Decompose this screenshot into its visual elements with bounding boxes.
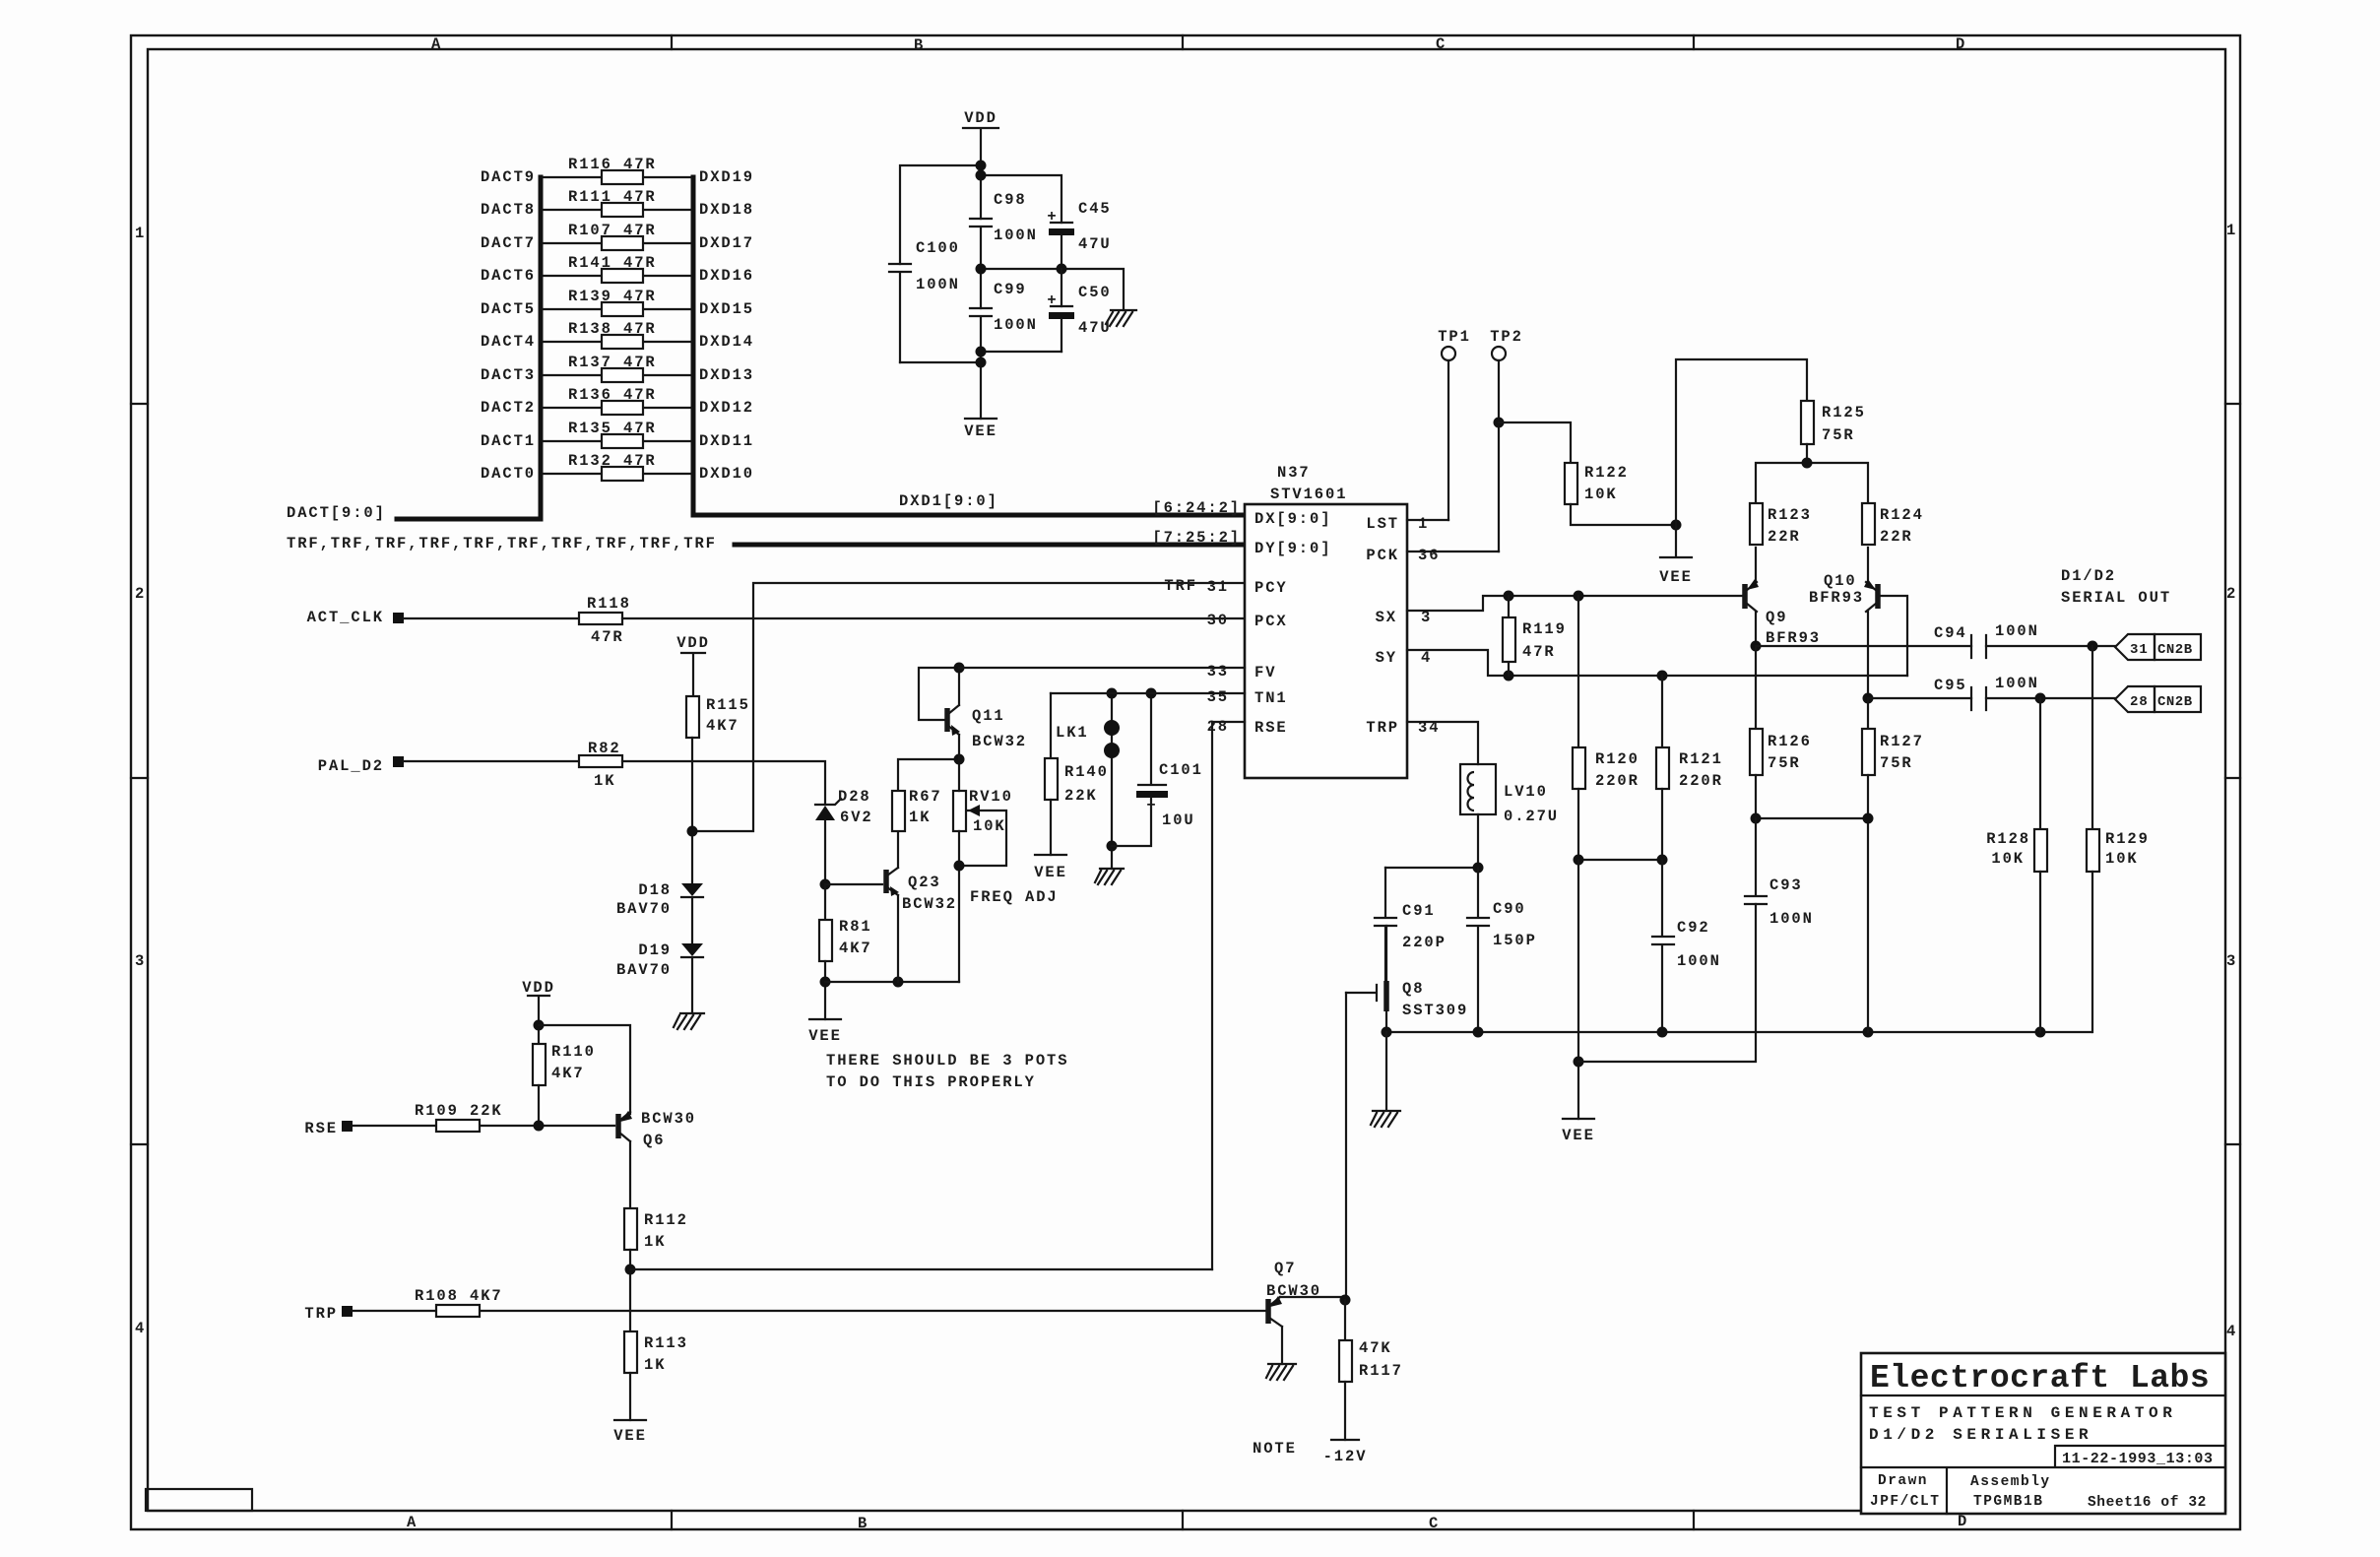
- power VEE (R113): [613, 1420, 647, 1445]
- zone label C bottom: [1429, 1515, 1440, 1532]
- svg-text:47U: 47U: [1078, 235, 1112, 253]
- svg-text:150P: 150P: [1493, 932, 1537, 949]
- resistor R112 1K: [624, 1208, 688, 1331]
- svg-text:DACT2: DACT2: [481, 399, 536, 417]
- svg-text:Q6: Q6: [643, 1132, 665, 1149]
- svg-text:RSE: RSE: [304, 1120, 338, 1137]
- zone label B top: [914, 36, 925, 54]
- capacitor C101 10U (polarised): [1112, 688, 1203, 847]
- svg-text:+: +: [1047, 208, 1058, 226]
- svg-text:R132 47R: R132 47R: [568, 452, 657, 470]
- pin 3 label: [1421, 609, 1432, 626]
- capacitor C100 100N: [889, 239, 960, 362]
- svg-text:BCW32: BCW32: [902, 895, 957, 913]
- svg-text:R118: R118: [587, 595, 631, 613]
- svg-text:1K: 1K: [594, 772, 615, 790]
- svg-text:R109 22K: R109 22K: [415, 1102, 503, 1120]
- wire Q8 gate drop: [1345, 993, 1347, 1298]
- resistor R141 47R (DACT6 to DXD16): [543, 254, 691, 283]
- wire TN1 pin 35: [1051, 692, 1245, 694]
- svg-text:Q9: Q9: [1766, 609, 1787, 626]
- svg-text:100N: 100N: [1995, 622, 2039, 640]
- label NOTE: [1253, 1440, 1297, 1458]
- wire ACT_CLK to R118: [404, 617, 579, 619]
- svg-text:D1/D2: D1/D2: [2061, 567, 2116, 585]
- svg-text:NOTE: NOTE: [1253, 1440, 1297, 1458]
- svg-text:6V2: 6V2: [840, 809, 873, 826]
- wire C93 bottom to VEE rail: [1578, 904, 1756, 1062]
- row label 2 right: [2226, 585, 2237, 603]
- svg-text:C98: C98: [994, 191, 1027, 209]
- wire RSE pin 28: [1212, 722, 1245, 1269]
- svg-text:Q8: Q8: [1402, 980, 1424, 998]
- svg-text:DXD13: DXD13: [699, 366, 754, 384]
- power VEE (cap bank): [964, 419, 997, 440]
- svg-text:DXD12: DXD12: [699, 399, 754, 417]
- wire C91/C90 top rail: [1385, 863, 1484, 874]
- svg-text:BCW30: BCW30: [641, 1110, 696, 1128]
- svg-text:TN1: TN1: [1254, 689, 1288, 707]
- ladder left bus (DACT side): [539, 177, 544, 519]
- svg-text:4: 4: [2226, 1323, 2237, 1340]
- svg-text:R126: R126: [1768, 733, 1812, 750]
- inductor LV10 0.27U: [1460, 764, 1559, 868]
- svg-text:R124: R124: [1880, 506, 1924, 524]
- node Q11 emitter junction: [954, 754, 965, 765]
- resistor R137 47R (DACT3 to DXD13): [543, 354, 691, 382]
- svg-text:DACT3: DACT3: [481, 366, 536, 384]
- resistor R135 47R (DACT1 to DXD11): [543, 420, 691, 448]
- resistor R117 47K: [1339, 1300, 1403, 1440]
- power VEE (R140): [1034, 855, 1067, 881]
- svg-text:R128: R128: [1986, 830, 2030, 848]
- row label 2 left: [135, 585, 146, 603]
- svg-text:R108 4K7: R108 4K7: [415, 1287, 503, 1305]
- transistor Q8 SST309 (FET): [1346, 926, 1468, 1032]
- svg-text:PCX: PCX: [1254, 613, 1288, 630]
- pin 1 label: [1418, 515, 1429, 533]
- svg-text:STV1601: STV1601: [1270, 486, 1347, 503]
- node VDD junction dots: [976, 161, 987, 181]
- wire D28 to Q23 base and R81: [820, 879, 883, 921]
- svg-text:35: 35: [1207, 688, 1229, 706]
- ground (Q7 emitter): [1266, 1364, 1296, 1380]
- svg-text:47U: 47U: [1078, 319, 1112, 337]
- svg-text:BFR93: BFR93: [1809, 589, 1864, 607]
- power VEE (R120 rail): [1562, 1119, 1595, 1144]
- wire R120/R121 bottom rail: [1574, 855, 1668, 866]
- svg-text:Q7: Q7: [1274, 1260, 1296, 1277]
- capacitor C98 100N: [970, 191, 1038, 308]
- wire VDD node to caps: [900, 165, 1061, 264]
- svg-text:Drawn: Drawn: [1878, 1473, 1928, 1489]
- svg-text:Sheet16 of 32: Sheet16 of 32: [2088, 1495, 2207, 1511]
- row label 4 left: [135, 1320, 146, 1337]
- wire PCK pin 36 to TP2: [1407, 551, 1499, 552]
- svg-text:DXD10: DXD10: [699, 465, 754, 483]
- transistor Q11 BCW32: [919, 668, 1027, 759]
- svg-text:DY[9:0]: DY[9:0]: [1254, 540, 1331, 557]
- resistor R125 75R: [1801, 401, 1866, 444]
- svg-text:+: +: [1047, 292, 1058, 309]
- node Q7 collector junction: [1340, 1295, 1351, 1306]
- node DACT4: [481, 333, 536, 351]
- svg-text:R120: R120: [1595, 750, 1640, 768]
- label FREQ ADJ: [970, 888, 1059, 906]
- svg-text:R141 47R: R141 47R: [568, 254, 657, 272]
- svg-text:10K: 10K: [1991, 850, 2025, 868]
- svg-text:4: 4: [135, 1320, 146, 1337]
- svg-text:VDD: VDD: [522, 979, 555, 997]
- svg-text:R116 47R: R116 47R: [568, 156, 657, 173]
- wire caps bottom rail: [900, 347, 1061, 420]
- row label 3 left: [135, 952, 146, 970]
- svg-text:LK1: LK1: [1056, 724, 1089, 742]
- svg-text:FV: FV: [1254, 664, 1276, 681]
- svg-text:C: C: [1429, 1515, 1440, 1532]
- node DXD11: [699, 432, 754, 450]
- svg-text:28: 28: [2130, 694, 2149, 710]
- wire TRF bus to DY: [735, 543, 1245, 548]
- wire R81 to bottom rail: [820, 961, 831, 1019]
- svg-text:DACT0: DACT0: [481, 465, 536, 483]
- svg-text:Assembly: Assembly: [1970, 1474, 2051, 1490]
- svg-text:-12V: -12V: [1323, 1448, 1368, 1465]
- resistor R122 10K: [1565, 463, 1629, 504]
- svg-text:R136 47R: R136 47R: [568, 386, 657, 404]
- wire emitter rail Q23/RV10: [825, 977, 959, 988]
- ground (below LK1): [1095, 869, 1124, 884]
- svg-text:DXD14: DXD14: [699, 333, 754, 351]
- svg-text:R115: R115: [706, 696, 750, 714]
- zone label C top: [1436, 35, 1447, 53]
- resistor R108 4K7: [415, 1287, 503, 1317]
- resistor R123 22R: [1750, 503, 1812, 546]
- power VEE (R122): [1659, 525, 1693, 586]
- note text pots: [826, 1052, 1068, 1091]
- row label 1 left: [135, 225, 146, 242]
- node DACT[9:0] bus label: [287, 504, 386, 522]
- svg-text:BCW30: BCW30: [1266, 1282, 1321, 1300]
- node mid rail: [976, 264, 1125, 311]
- svg-text:R135 47R: R135 47R: [568, 420, 657, 437]
- wire RSE to Q6 base: [353, 1121, 614, 1132]
- resistor R128 10K: [1986, 698, 2047, 1032]
- resistor R110 4K7: [533, 1043, 596, 1126]
- node FV junction dot: [954, 663, 965, 674]
- svg-text:DXD15: DXD15: [699, 300, 754, 318]
- capacitor C95 100N: [1934, 675, 2039, 710]
- wire TP2 branch to R122: [1499, 422, 1571, 463]
- capacitor C50 47U (polarised): [1047, 269, 1111, 352]
- node DXD10: [699, 465, 754, 483]
- svg-text:JPF/CLT: JPF/CLT: [1870, 1494, 1940, 1510]
- svg-text:DACT6: DACT6: [481, 267, 536, 285]
- row label 3 right: [2226, 952, 2237, 970]
- svg-text:10K: 10K: [973, 817, 1006, 835]
- svg-text:R112: R112: [644, 1211, 688, 1229]
- resistor R107 47R (DACT7 to DXD17): [543, 222, 691, 250]
- svg-text:D: D: [1956, 35, 1966, 53]
- svg-text:47K: 47K: [1359, 1339, 1392, 1357]
- svg-text:R107 47R: R107 47R: [568, 222, 657, 239]
- node DACT9: [481, 168, 536, 186]
- pin 35 label: [1207, 688, 1229, 706]
- svg-text:1K: 1K: [644, 1233, 666, 1251]
- svg-text:DXD1[9:0]: DXD1[9:0]: [899, 492, 998, 510]
- svg-text:[6:24:2]: [6:24:2]: [1152, 499, 1241, 517]
- capacitor C45 47U (polarised): [1047, 200, 1111, 269]
- ground (cap bank): [1106, 310, 1136, 326]
- svg-text:VDD: VDD: [964, 109, 997, 127]
- wire C95 coupling: [1868, 693, 2115, 704]
- node DXD16: [699, 267, 754, 285]
- svg-text:Electrocraft Labs: Electrocraft Labs: [1870, 1360, 2210, 1396]
- node TRP input: [304, 1305, 353, 1323]
- svg-text:75R: 75R: [1768, 754, 1801, 772]
- svg-text:D28: D28: [838, 788, 871, 806]
- pin 34 label: [1418, 719, 1440, 737]
- node [6:24:2] bus tap label: [1152, 499, 1241, 517]
- resistor R119 47R: [1503, 596, 1567, 676]
- pin 28 label: [1207, 718, 1229, 736]
- svg-text:SX: SX: [1376, 609, 1397, 626]
- svg-text:C93: C93: [1769, 876, 1803, 894]
- potentiometer RV10 10K: [953, 759, 1013, 982]
- capacitor C94 100N: [1934, 622, 2039, 658]
- svg-text:Q10: Q10: [1824, 572, 1857, 590]
- pin 4 label: [1421, 649, 1432, 667]
- power VDD (R115): [676, 634, 710, 696]
- resistor R82 1K: [579, 740, 622, 790]
- svg-text:R138 47R: R138 47R: [568, 320, 657, 338]
- wire FV pin 33: [959, 667, 1245, 669]
- node DXD17: [699, 234, 754, 252]
- node [7:25:2] bus tap label: [1152, 529, 1241, 547]
- wire C94 coupling: [1756, 641, 2115, 652]
- resistor R140 22K: [1045, 693, 1109, 855]
- node DACT6: [481, 267, 536, 285]
- transistor Q9 BFR93: [1745, 548, 1821, 647]
- IC N37 STV1601: [1245, 464, 1407, 778]
- transistor Q6 BCW30: [618, 1110, 696, 1208]
- transistor Q23 BCW32: [886, 831, 957, 982]
- wire DACT bus: [397, 517, 541, 522]
- svg-text:BAV70: BAV70: [616, 900, 672, 918]
- wire SY pin 4 to lower rail: [1407, 650, 1907, 681]
- svg-text:10K: 10K: [1584, 486, 1618, 503]
- svg-text:TO DO THIS PROPERLY: TO DO THIS PROPERLY: [826, 1073, 1036, 1091]
- power -12V: [1323, 1440, 1368, 1465]
- svg-text:RV10: RV10: [969, 788, 1013, 806]
- svg-text:DACT9: DACT9: [481, 168, 536, 186]
- svg-text:C: C: [1436, 35, 1447, 53]
- svg-text:TRP: TRP: [304, 1305, 338, 1323]
- pin 36 label: [1418, 547, 1440, 564]
- svg-text:R67: R67: [909, 788, 942, 806]
- wire R82 to D28: [622, 761, 825, 804]
- svg-text:DXD19: DXD19: [699, 168, 754, 186]
- node TRF label: [1164, 577, 1197, 595]
- svg-text:TRP: TRP: [1366, 719, 1399, 737]
- svg-text:1K: 1K: [644, 1356, 666, 1374]
- svg-text:75R: 75R: [1880, 754, 1913, 772]
- svg-text:R110: R110: [551, 1043, 596, 1061]
- row label 1 right: [2226, 222, 2237, 239]
- test point TP1: [1438, 328, 1471, 520]
- capacitor C92 100N: [1652, 860, 1721, 1032]
- diode D19 BAV70: [616, 941, 703, 1013]
- node DXD18: [699, 201, 754, 219]
- node DXD13: [699, 366, 754, 384]
- node DXD12: [699, 399, 754, 417]
- svg-text:SERIAL OUT: SERIAL OUT: [2061, 589, 2171, 607]
- svg-text:36: 36: [1418, 547, 1440, 564]
- node DXD14: [699, 333, 754, 351]
- pin 31 label: [1207, 578, 1229, 596]
- svg-text:C91: C91: [1402, 902, 1436, 920]
- svg-text:3: 3: [2226, 952, 2237, 970]
- svg-text:VEE: VEE: [964, 422, 997, 440]
- svg-text:LST: LST: [1366, 515, 1399, 533]
- resistor R81 4K7: [819, 918, 872, 961]
- wire DXD1 bus: [693, 513, 1245, 518]
- capacitor C93 100N: [1745, 818, 1814, 928]
- svg-text:4: 4: [1421, 649, 1432, 667]
- svg-text:TPGMB1B: TPGMB1B: [1973, 1494, 2043, 1510]
- zone label D bottom: [1958, 1513, 1968, 1530]
- svg-text:R139 47R: R139 47R: [568, 288, 657, 305]
- svg-text:100N: 100N: [916, 276, 960, 293]
- svg-text:PAL_D2: PAL_D2: [318, 757, 384, 775]
- svg-text:R122: R122: [1584, 464, 1629, 482]
- svg-text:4K7: 4K7: [706, 717, 740, 735]
- svg-text:R137 47R: R137 47R: [568, 354, 657, 371]
- svg-text:100N: 100N: [1677, 952, 1721, 970]
- svg-text:RSE: RSE: [1254, 719, 1288, 737]
- svg-text:R119: R119: [1522, 620, 1567, 638]
- svg-text:10K: 10K: [2105, 850, 2139, 868]
- svg-text:DXD16: DXD16: [699, 267, 754, 285]
- resistor R67 1K: [892, 759, 959, 831]
- svg-text:VEE: VEE: [1562, 1127, 1595, 1144]
- svg-text:DXD11: DXD11: [699, 432, 754, 450]
- svg-text:VEE: VEE: [808, 1027, 842, 1045]
- node ACT_CLK input: [307, 609, 404, 626]
- resistor R118 47R: [579, 595, 631, 646]
- svg-text:FREQ ADJ: FREQ ADJ: [970, 888, 1059, 906]
- connector CN2B pin 28: [2115, 686, 2201, 712]
- svg-text:4K7: 4K7: [839, 940, 872, 957]
- svg-text:BFR93: BFR93: [1766, 629, 1821, 647]
- svg-text:C99: C99: [994, 281, 1027, 298]
- svg-text:TEST PATTERN GENERATOR: TEST PATTERN GENERATOR: [1869, 1404, 2176, 1422]
- svg-text:1: 1: [1418, 515, 1429, 533]
- svg-text:C95: C95: [1934, 677, 1967, 694]
- wire LST pin 1 to TP1: [1407, 519, 1448, 521]
- svg-text:C101: C101: [1159, 761, 1203, 779]
- svg-text:31: 31: [2130, 642, 2149, 658]
- svg-text:220P: 220P: [1402, 934, 1447, 951]
- svg-text:31: 31: [1207, 578, 1229, 596]
- svg-text:BAV70: BAV70: [616, 961, 672, 979]
- ground (below Q8): [1371, 1032, 1400, 1127]
- node DACT2: [481, 399, 536, 417]
- svg-text:0.27U: 0.27U: [1504, 808, 1559, 825]
- svg-text:47R: 47R: [591, 628, 624, 646]
- svg-text:B: B: [914, 36, 925, 54]
- svg-text:DACT4: DACT4: [481, 333, 536, 351]
- power VEE (R81): [808, 1019, 842, 1045]
- diode D18 BAV70: [616, 881, 703, 943]
- resistor R124 22R: [1862, 503, 1924, 546]
- svg-text:28: 28: [1207, 718, 1229, 736]
- svg-text:CN2B: CN2B: [2157, 694, 2193, 710]
- capacitor C90 150P: [1467, 868, 1537, 1032]
- zone label B bottom: [858, 1515, 868, 1532]
- ground (below D19): [674, 1013, 704, 1029]
- svg-text:DACT8: DACT8: [481, 201, 536, 219]
- node DXD1[9:0] bus label: [899, 492, 998, 510]
- node TRF list label: [287, 535, 717, 552]
- wire R126/R127 bottom rail: [1751, 813, 1874, 1033]
- svg-text:R127: R127: [1880, 733, 1924, 750]
- svg-text:CN2B: CN2B: [2157, 642, 2193, 658]
- zone label D top: [1956, 35, 1966, 53]
- svg-text:DACT5: DACT5: [481, 300, 536, 318]
- node DACT0: [481, 465, 536, 483]
- capacitor C91 220P: [1375, 868, 1447, 983]
- svg-text:Q23: Q23: [908, 874, 941, 891]
- node Q10 emitter junction: [1863, 693, 1874, 704]
- svg-text:R129: R129: [2105, 830, 2150, 848]
- resistor R127 75R: [1862, 698, 1924, 818]
- svg-text:DXD17: DXD17: [699, 234, 754, 252]
- transistor Q10 BFR93: [1809, 548, 1907, 698]
- resistor R121 220R: [1656, 676, 1723, 860]
- svg-text:TP2: TP2: [1490, 328, 1523, 346]
- wire TRP pin 34 to LV10: [1407, 722, 1478, 764]
- svg-text:47R: 47R: [1522, 643, 1556, 661]
- svg-text:100N: 100N: [994, 227, 1038, 244]
- resistor R109 22K: [415, 1102, 503, 1132]
- wire Q8 source rail: [1382, 1027, 2092, 1038]
- svg-text:2: 2: [135, 585, 146, 603]
- connector CN2B pin 31: [2115, 634, 2201, 660]
- node PAL_D2 input: [318, 756, 404, 775]
- svg-text:C45: C45: [1078, 200, 1112, 218]
- svg-text:D: D: [1958, 1513, 1968, 1530]
- svg-text:75R: 75R: [1822, 426, 1855, 444]
- svg-text:THERE SHOULD BE 3 POTS: THERE SHOULD BE 3 POTS: [826, 1052, 1068, 1070]
- svg-text:PCK: PCK: [1366, 547, 1399, 564]
- svg-text:R111 47R: R111 47R: [568, 188, 657, 206]
- svg-text:SY: SY: [1376, 649, 1397, 667]
- row label 4 right: [2226, 1323, 2237, 1340]
- svg-text:ACT_CLK: ACT_CLK: [307, 609, 384, 626]
- wire TRP to Q7 base: [353, 1310, 1268, 1312]
- wire R125 to R123/R124 rail: [1756, 444, 1868, 503]
- wire PAL_D2 to R82: [404, 760, 579, 762]
- ladder right bus (DXD side): [691, 177, 696, 515]
- svg-text:SST309: SST309: [1402, 1002, 1468, 1019]
- svg-text:DX[9:0]: DX[9:0]: [1254, 510, 1331, 528]
- node Q9 emitter junction: [1751, 641, 1762, 652]
- pin 33 label: [1207, 663, 1229, 681]
- wire VEE drop (R120): [1574, 860, 1584, 1119]
- svg-text:C100: C100: [916, 239, 960, 257]
- svg-text:DACT1: DACT1: [481, 432, 536, 450]
